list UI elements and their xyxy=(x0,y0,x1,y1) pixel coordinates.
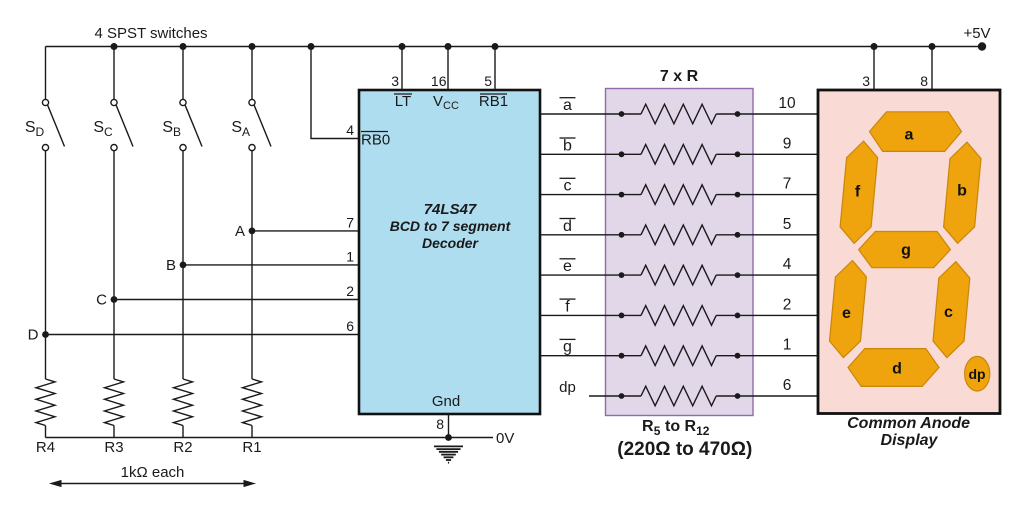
wire: SB column xyxy=(182,151,184,379)
svg-text:S: S xyxy=(25,119,36,136)
node C xyxy=(111,296,118,303)
resistor R5 xyxy=(619,111,625,117)
svg-text:1kΩ each: 1kΩ each xyxy=(121,464,185,481)
switch SD xyxy=(42,47,64,151)
junction on +5V rail x=932 xyxy=(929,43,936,50)
svg-text:R: R xyxy=(685,418,697,435)
wire: decoder output dp row xyxy=(589,395,622,397)
resistor network box 7xR xyxy=(606,89,754,416)
svg-text:A: A xyxy=(235,223,245,240)
svg-text:4: 4 xyxy=(783,256,792,273)
segment a xyxy=(870,112,962,152)
svg-text:8: 8 xyxy=(920,73,928,89)
wire: SD column xyxy=(45,151,47,379)
svg-text:1: 1 xyxy=(783,337,792,354)
svg-text:RB0: RB0 xyxy=(361,132,390,149)
resistor R8 xyxy=(619,232,625,238)
svg-text:2: 2 xyxy=(346,283,354,299)
display pin 3 wire xyxy=(873,47,875,91)
wire: R9 to display pin 4 xyxy=(738,274,819,276)
svg-text:1: 1 xyxy=(346,248,354,264)
junction on +5V rail x=874 xyxy=(871,43,878,50)
wire: +5V top rail xyxy=(46,46,983,48)
segment g xyxy=(859,232,951,268)
svg-text:6: 6 xyxy=(346,318,354,334)
svg-text:Gnd: Gnd xyxy=(432,393,460,410)
node: ground junction xyxy=(445,434,452,441)
svg-text:g: g xyxy=(563,339,572,356)
svg-text:C: C xyxy=(96,292,107,309)
svg-text:Common Anode: Common Anode xyxy=(847,415,970,432)
ground symbol xyxy=(434,446,463,462)
svg-text:10: 10 xyxy=(778,95,796,112)
wire: R11 to display pin 1 xyxy=(738,355,819,357)
svg-text:a: a xyxy=(905,127,914,144)
wire: node C to decoder pin 2 xyxy=(114,299,359,301)
svg-text:CC: CC xyxy=(443,100,459,112)
label: Common Anode Display xyxy=(847,415,970,449)
svg-text:5: 5 xyxy=(783,216,792,233)
wire: SC column xyxy=(113,151,115,379)
svg-text:g: g xyxy=(901,242,911,259)
svg-text:S: S xyxy=(162,119,173,136)
svg-text:7: 7 xyxy=(346,214,354,230)
label R5 to R12 xyxy=(617,418,752,460)
wire: decoder output f row xyxy=(540,314,622,316)
svg-text:3: 3 xyxy=(862,73,870,89)
svg-text:S: S xyxy=(93,119,104,136)
resistor R4 xyxy=(36,379,55,426)
segment dp xyxy=(965,356,990,391)
svg-text:S: S xyxy=(231,119,242,136)
svg-text:D: D xyxy=(28,327,39,344)
wire: decoder output a row xyxy=(540,113,622,115)
node: +5V terminal xyxy=(978,42,986,50)
svg-text:f: f xyxy=(565,298,570,315)
resistor R12 xyxy=(619,393,625,399)
svg-text:9: 9 xyxy=(783,135,792,152)
svg-text:(220Ω to 470Ω): (220Ω to 470Ω) xyxy=(617,439,752,460)
junction on +5V rail x=402 xyxy=(399,43,406,50)
svg-text:c: c xyxy=(564,178,572,195)
svg-text:5: 5 xyxy=(654,424,661,438)
segment f xyxy=(840,141,878,243)
svg-text:12: 12 xyxy=(696,424,710,438)
wire: +5V to RB0 pin 4 xyxy=(311,47,359,139)
resistor R6 xyxy=(619,151,625,157)
svg-text:R3: R3 xyxy=(104,439,123,456)
junction on +5V rail x=495 xyxy=(492,43,499,50)
svg-text:b: b xyxy=(957,183,967,200)
segment d xyxy=(848,349,939,387)
node B xyxy=(180,262,187,269)
segment c xyxy=(933,262,970,358)
svg-text:16: 16 xyxy=(431,73,447,89)
wire: node A to decoder pin 7 xyxy=(252,230,359,232)
resistor R1 xyxy=(243,379,262,426)
svg-text:dp: dp xyxy=(968,366,985,382)
svg-text:B: B xyxy=(173,125,181,139)
wire: R7 to display pin 7 xyxy=(738,194,819,196)
svg-text:a: a xyxy=(563,97,572,114)
svg-text:R4: R4 xyxy=(36,439,55,456)
wire: SA column xyxy=(251,151,253,379)
resistor R11 xyxy=(619,353,625,359)
node D xyxy=(42,331,49,338)
switch SC xyxy=(111,47,133,151)
junction on +5V rail x=311 xyxy=(308,43,315,50)
junction on +5V rail x=252 xyxy=(249,43,256,50)
svg-text:LT: LT xyxy=(395,93,411,110)
wire: 0V bottom rail xyxy=(46,437,494,439)
svg-text:Decoder: Decoder xyxy=(422,235,480,251)
resistor R7 xyxy=(619,192,625,198)
svg-text:3: 3 xyxy=(391,73,399,89)
wire: decoder output d row xyxy=(540,234,622,236)
wire: R5 to display pin 10 xyxy=(738,113,819,115)
resistor R9 xyxy=(619,272,625,278)
svg-text:to: to xyxy=(665,418,680,435)
wire: Gnd pin 8 xyxy=(448,414,450,438)
wire: R10 to display pin 2 xyxy=(738,314,819,316)
svg-text:7 x R: 7 x R xyxy=(660,68,699,85)
svg-text:RB1: RB1 xyxy=(479,93,508,110)
display DS1 common anode xyxy=(818,90,1000,414)
wire: R12 to display pin 6 xyxy=(738,395,819,397)
svg-text:7: 7 xyxy=(783,176,792,193)
svg-text:R: R xyxy=(642,418,654,435)
svg-text:C: C xyxy=(104,125,113,139)
svg-text:R2: R2 xyxy=(173,439,192,456)
wire: decoder output e row xyxy=(540,274,622,276)
resistor R3 xyxy=(105,379,124,426)
svg-text:4 SPST switches: 4 SPST switches xyxy=(94,25,207,42)
svg-text:4: 4 xyxy=(346,122,354,138)
svg-text:dp: dp xyxy=(559,379,576,396)
svg-text:8: 8 xyxy=(436,416,444,432)
wire: decoder output b row xyxy=(540,153,622,155)
resistor R10 xyxy=(619,313,625,319)
pin 5 RB1 xyxy=(494,47,496,91)
segment e xyxy=(830,261,867,358)
wire: R6 to display pin 9 xyxy=(738,153,819,155)
svg-text:+5V: +5V xyxy=(963,25,990,42)
svg-text:f: f xyxy=(855,184,861,201)
svg-text:V: V xyxy=(433,93,443,110)
svg-text:6: 6 xyxy=(783,377,792,394)
switch SA xyxy=(249,47,271,151)
wire: node B to decoder pin 1 xyxy=(183,264,359,266)
pin 16 VCC xyxy=(447,47,449,91)
segment b xyxy=(944,142,981,243)
svg-text:b: b xyxy=(563,137,572,154)
svg-text:74LS47: 74LS47 xyxy=(424,201,477,218)
dimension arrow xyxy=(49,480,256,487)
switch SB xyxy=(180,47,202,151)
junction on +5V rail x=114 xyxy=(111,43,118,50)
svg-text:R1: R1 xyxy=(242,439,261,456)
IC U1 74LS47 decoder xyxy=(359,90,540,414)
svg-text:d: d xyxy=(563,218,572,235)
svg-text:D: D xyxy=(36,125,45,139)
resistor R2 xyxy=(174,379,193,426)
svg-text:B: B xyxy=(166,257,176,274)
wire: decoder output c row xyxy=(540,194,622,196)
svg-text:Display: Display xyxy=(881,432,939,449)
svg-text:c: c xyxy=(944,304,953,321)
wire: node D to decoder pin 6 xyxy=(46,334,360,336)
svg-text:2: 2 xyxy=(783,296,792,313)
node A xyxy=(249,228,256,235)
junction on +5V rail x=183 xyxy=(180,43,187,50)
svg-text:e: e xyxy=(563,258,572,275)
display pin 8 wire xyxy=(931,47,933,91)
svg-text:e: e xyxy=(842,305,851,322)
svg-text:5: 5 xyxy=(484,73,492,89)
svg-text:A: A xyxy=(242,125,250,139)
svg-text:d: d xyxy=(892,361,902,378)
svg-text:BCD to 7 segment: BCD to 7 segment xyxy=(390,218,512,234)
svg-text:0V: 0V xyxy=(496,430,514,447)
wire: decoder output g row xyxy=(540,355,622,357)
junction on +5V rail x=448 xyxy=(445,43,452,50)
wire: R8 to display pin 5 xyxy=(738,234,819,236)
pin 3 LT xyxy=(401,47,403,91)
